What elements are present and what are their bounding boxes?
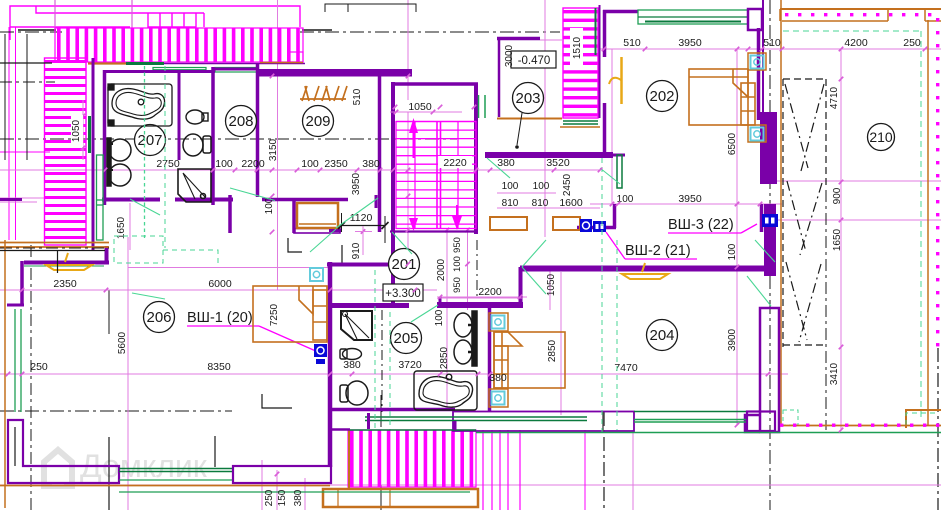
dim line y52 right (598, 48, 941, 50)
wall 203 left (498, 37, 501, 117)
svg-text:100: 100 (215, 158, 233, 170)
svg-text:3950: 3950 (351, 172, 362, 195)
axis vertical x109 mid-left (108, 290, 110, 334)
stair outline (396, 122, 476, 229)
svg-text:100: 100 (452, 256, 463, 272)
svg-text:202: 202 (649, 88, 674, 105)
wall stair right (474, 84, 478, 234)
wall room207 top (104, 70, 215, 73)
wall stair left (391, 82, 395, 308)
hatched wall band top (55, 28, 303, 62)
svg-text:203: 203 (515, 90, 540, 107)
wall 205 bottom (330, 408, 455, 412)
green line y492 (119, 491, 470, 493)
svg-text:100: 100 (533, 181, 550, 192)
svg-text:510: 510 (352, 88, 363, 105)
dim tick 1050 (390, 111, 462, 113)
wall top of rooms 207-209 left (164, 63, 305, 65)
band C right wall (599, 5, 601, 118)
dim line 1120 (342, 225, 386, 227)
stair band C orange sill (560, 126, 600, 128)
cabinet hall 2 (553, 217, 580, 230)
wall 204 right (760, 308, 779, 432)
svg-text:2350: 2350 (324, 158, 348, 170)
dim vertical x128 bottom (127, 237, 129, 510)
dim ticks y52 (602, 47, 607, 52)
axis line top solid tick left (18, 29, 56, 31)
socket 204 top (492, 316, 505, 329)
wall 205-204 divider (488, 305, 492, 412)
svg-text:510: 510 (763, 37, 781, 49)
dim ticks y204 (610, 202, 615, 207)
wall 202 right (757, 28, 761, 120)
socket 202 top (751, 56, 764, 69)
bed 206 (253, 286, 327, 342)
sink small 207 (186, 110, 208, 124)
dim line y485 (0, 484, 941, 486)
hatched stair band left (45, 58, 87, 245)
wall 206 bottom right (233, 466, 331, 483)
green dashed right (920, 31, 922, 420)
dim line y220 right (766, 219, 941, 221)
nightstand 204 top (489, 313, 508, 331)
green dashed verticals left (374, 270, 376, 430)
dim vticks x841 (839, 47, 844, 52)
dim ticks y170 (103, 168, 108, 173)
dim vertical x633 bottom (632, 430, 634, 510)
axis y82 left (0, 81, 55, 83)
svg-text:1050: 1050 (408, 101, 432, 113)
wall 202 right lower (760, 204, 764, 232)
toilet 205 (340, 381, 368, 405)
wall room207/208 (211, 67, 215, 205)
wall 202 top left corner (603, 10, 638, 14)
balcony orange tray (323, 489, 478, 507)
roof outline top-left (10, 6, 300, 40)
wall hall top y265 (327, 263, 395, 267)
axis line y411 (0, 410, 232, 412)
truss dash-dot axis (825, 190, 827, 430)
svg-text:4200: 4200 (844, 37, 868, 49)
shower 205 (341, 311, 372, 340)
dim vert x130 (129, 203, 131, 250)
svg-text:209: 209 (305, 113, 330, 130)
green window left col (97, 155, 104, 240)
wall 203 bottom right ext (613, 154, 625, 157)
dim line y267 left (128, 267, 330, 269)
wall 209 bottom left (262, 198, 348, 202)
svg-text:205: 205 (393, 330, 418, 347)
wall stair top (391, 82, 478, 86)
stair stringer (414, 122, 416, 229)
orange right edge (927, 20, 929, 425)
dim line y204 (590, 203, 782, 205)
svg-text:950: 950 (452, 277, 463, 293)
svg-text:1120: 1120 (350, 212, 373, 224)
svg-text:380: 380 (497, 157, 515, 169)
svg-text:510: 510 (623, 37, 641, 49)
dim vertical x550 (549, 267, 551, 310)
svg-text:380: 380 (293, 489, 304, 506)
nightstand 202 bottom (748, 125, 766, 142)
hatched stair band 203 (563, 8, 598, 118)
underline VSh-3 (668, 232, 741, 234)
wall 208/209 divider (256, 63, 260, 197)
door swing 209 low (336, 198, 378, 228)
orange eave bottom (0, 485, 330, 487)
wall 203 bottom corridor (485, 152, 613, 158)
window 206 bottom (119, 468, 233, 470)
wall 202-210 divider (762, 0, 764, 112)
svg-text:2200: 2200 (241, 158, 265, 170)
svg-text:ВШ-2 (21): ВШ-2 (21) (625, 243, 691, 259)
radiator 202 left (617, 155, 622, 188)
svg-text:380: 380 (362, 158, 380, 170)
magenta dotted y425 (780, 424, 939, 427)
svg-text:2850: 2850 (547, 339, 558, 362)
svg-text:100: 100 (434, 309, 445, 326)
watermark Domklik (44, 450, 72, 486)
black vert x381 (380, 395, 382, 427)
svg-text:250: 250 (30, 361, 48, 373)
black vert x57 (57, 250, 59, 273)
svg-text:ВШ-1 (20): ВШ-1 (20) (187, 310, 253, 326)
black vert x15 (14, 427, 16, 466)
svg-text:208: 208 (228, 113, 253, 130)
axis vertical x215 bottom-left (214, 436, 216, 467)
shower 207 (178, 169, 211, 202)
dim vertical x408 (407, 0, 409, 264)
wardrobe hatch 209 (300, 86, 347, 101)
label room 209 (303, 106, 334, 137)
orange eave left (4, 240, 6, 508)
roof pink verts (8, 27, 10, 240)
dim line y297 (437, 296, 527, 298)
door swing stair (392, 232, 412, 254)
axis line top solid tick right (302, 29, 332, 31)
socket 202 bottom (751, 128, 764, 141)
svg-text:1050: 1050 (546, 273, 557, 296)
svg-text:2450: 2450 (562, 173, 573, 196)
stair treads (396, 121, 476, 123)
svg-text:4710: 4710 (829, 86, 840, 109)
svg-text:6500: 6500 (727, 132, 738, 155)
svg-text:2850: 2850 (439, 346, 450, 369)
window 202 top (638, 10, 748, 24)
svg-text:3720: 3720 (398, 359, 422, 371)
black corner 201 (342, 245, 371, 264)
balcony orange tray inner (337, 489, 339, 507)
wall band bottom right (476, 432, 941, 434)
label room 203 (513, 83, 544, 114)
dim vertical x561 (560, 272, 562, 415)
svg-text:204: 204 (649, 327, 674, 344)
truss column dashed (783, 79, 826, 347)
dim vertical x841 (840, 49, 842, 430)
svg-text:201: 201 (391, 256, 416, 273)
svg-text:100: 100 (727, 243, 738, 260)
axis vertical x31 bottom-left (30, 245, 32, 510)
cabinet hall 1 (490, 217, 527, 230)
black corner mark 2 (262, 394, 292, 408)
wall top 208/209 (213, 68, 257, 71)
label room 210 (868, 124, 895, 151)
wall left outer top (26, 34, 28, 160)
door swing 207 (130, 199, 160, 215)
green dashed path 206 (163, 250, 218, 263)
stair band C green sill (563, 120, 598, 122)
svg-text:ВШ-3 (22): ВШ-3 (22) (668, 217, 734, 233)
svg-text:2220: 2220 (443, 157, 467, 169)
axis line top (0, 31, 62, 33)
label +3.300 (383, 284, 423, 301)
cabinet below 209 (297, 203, 338, 228)
green dashed corner br (906, 413, 936, 425)
wall 203 orange sill (497, 118, 562, 120)
sinks 207 (107, 138, 131, 186)
vent shaft scallop line (144, 66, 146, 238)
green dashed x165 (164, 66, 166, 248)
wall alcove left vert (439, 297, 442, 308)
black vert x109 bottom (108, 437, 110, 510)
sinks 205 (454, 311, 477, 366)
wall below 209 jog (375, 195, 378, 208)
svg-text:3950: 3950 (678, 37, 702, 49)
wall 209 right (378, 76, 382, 232)
window 206 left (14, 309, 16, 412)
svg-text:207: 207 (137, 132, 162, 149)
green sill 206 top (24, 265, 104, 267)
dim vertical x545 (544, 0, 546, 237)
orange sill band B bottom (0, 250, 105, 252)
svg-text:2750: 2750 (156, 158, 180, 170)
orange corner bottom right (906, 410, 941, 428)
door swing 202 bottom (600, 168, 620, 184)
wall alcove top (437, 302, 523, 308)
label room 206 (144, 302, 175, 333)
svg-text:1650: 1650 (832, 228, 843, 251)
wall 204 bottom band (453, 412, 634, 432)
dim line y374 (0, 373, 788, 375)
wall 208 bottom (213, 198, 233, 202)
dim vticks x408 (406, 74, 411, 79)
label room 207 (135, 125, 166, 156)
toilet 207 (183, 134, 211, 156)
dim bracket top center (325, 4, 416, 12)
door swing 205 (411, 305, 438, 322)
green vert x89 (88, 116, 91, 153)
dim vertical x612 (611, 49, 613, 204)
vsh1 icon (314, 344, 327, 357)
orange eave 206 (0, 242, 109, 244)
dim vertical x55 (54, 0, 56, 30)
svg-text:900: 900 (832, 187, 843, 204)
svg-text:150: 150 (277, 489, 288, 506)
label room 205 (391, 323, 422, 354)
svg-text:1510: 1510 (572, 36, 583, 59)
svg-text:3900: 3900 (727, 328, 738, 351)
dim 1050 stairs (403, 100, 437, 112)
green diag 203 (487, 158, 510, 178)
svg-text:3950: 3950 (678, 193, 702, 205)
svg-text:950: 950 (452, 237, 463, 253)
axis vertical x604 bottom (603, 412, 605, 510)
wall room207 divider (178, 70, 181, 160)
svg-text:7470: 7470 (614, 362, 638, 374)
stair down arrow (456, 205, 458, 218)
svg-text:206: 206 (146, 309, 171, 326)
dim ticks y374 (6, 372, 11, 377)
dim 1050 left stair (71, 115, 83, 147)
underline VSh-2 (625, 258, 697, 260)
truss braces (785, 84, 824, 342)
green dashed box 206 (114, 236, 163, 263)
wall corridor x286 (292, 199, 296, 233)
vsh2 icon (580, 219, 592, 232)
axis line y139 (0, 138, 457, 140)
wall 202 bottom jog (613, 204, 617, 228)
stair band left dim line (82, 100, 84, 160)
window 204 bottom (634, 411, 747, 413)
wall under band A orange sill (88, 62, 126, 64)
svg-text:1600: 1600 (559, 197, 583, 209)
wall 206 top (24, 261, 109, 265)
wall 204 bottom right corner (747, 412, 775, 432)
svg-text:100: 100 (502, 181, 519, 192)
dim vertical x446 (446, 228, 448, 410)
bathtub 205 (414, 371, 477, 410)
label -0.470 (511, 51, 556, 68)
axis 206 y248 (0, 247, 109, 249)
leader 203 (517, 113, 522, 145)
wall corridor x230 (228, 195, 232, 233)
vsh3 icon (762, 214, 778, 227)
wall 202 left (603, 10, 607, 57)
dim vertical x272 (277, 0, 279, 290)
dim vertical x585 bottom (584, 430, 586, 510)
svg-text:3410: 3410 (829, 362, 840, 385)
dim line y181 right (766, 180, 941, 182)
window alcove bottom (365, 416, 587, 418)
dim ticks y298 (438, 295, 443, 300)
axis line top right part (300, 31, 560, 33)
axis vertical x770 (769, 0, 771, 510)
svg-text:1050: 1050 (71, 119, 82, 142)
lamp 206 (46, 253, 92, 270)
svg-text:7250: 7250 (269, 303, 280, 326)
orange band top right (780, 8, 941, 10)
label room 204 (647, 320, 678, 351)
dim vertical x132 (131, 0, 133, 62)
svg-text:210: 210 (869, 129, 893, 145)
stair up arrow (413, 132, 415, 158)
green dashed inner 210 (783, 30, 922, 32)
dim line y290 (0, 289, 437, 291)
balcony extra vlines (482, 430, 484, 510)
svg-text:250: 250 (264, 489, 275, 506)
wall 203 top (497, 37, 540, 41)
door swing vsh3 (755, 240, 775, 262)
axis x382 bath (381, 310, 383, 412)
dim line y170 (0, 169, 600, 171)
wall hall-204 top (520, 266, 766, 272)
wall hall left x330 (328, 262, 333, 467)
wall under band A green frames (153, 68, 206, 73)
wall 206 left lower corner (8, 420, 119, 483)
bed 202 (689, 69, 755, 125)
hatch band top inner box (288, 52, 303, 62)
wall 206 left upper (20, 261, 24, 306)
bed 204 (494, 332, 565, 388)
stair window green (478, 95, 480, 118)
dim vticks x737 (735, 47, 740, 52)
dim vertical x455 (467, 228, 469, 310)
svg-text:3000: 3000 (504, 44, 515, 67)
nightstand 204 bottom (489, 389, 508, 407)
wall corridor y229 (294, 229, 340, 234)
threshold stubs (367, 413, 370, 429)
wall 205 top (330, 303, 409, 308)
hatched balcony band bottom (348, 430, 476, 487)
svg-text:380: 380 (343, 359, 361, 371)
wall room207 left (103, 70, 107, 205)
svg-text:910: 910 (351, 242, 362, 259)
door swing 208 (230, 188, 275, 201)
svg-text:6000: 6000 (208, 278, 232, 290)
axis vertical x938 bottom (937, 348, 939, 510)
wall left horiz y63 (0, 62, 52, 64)
wall 202 top right corner (748, 9, 762, 30)
svg-text:2350: 2350 (53, 278, 77, 290)
svg-text:100: 100 (301, 158, 319, 170)
socket 206 (310, 268, 323, 281)
nightstand 202 top (748, 53, 766, 70)
green dashed box 204br (783, 410, 798, 425)
svg-text:810: 810 (502, 198, 519, 209)
wall 206 top jog (105, 246, 109, 264)
dim vertical x737 (736, 49, 738, 425)
balcony top border (349, 429, 476, 431)
magenta dotted top right (785, 13, 931, 16)
wall 204 right upper (764, 204, 776, 276)
door swings hall (132, 240, 546, 299)
dim ticks y107 (393, 105, 398, 110)
svg-text:380: 380 (489, 372, 507, 384)
svg-text:2200: 2200 (478, 286, 502, 298)
svg-text:810: 810 (532, 198, 549, 209)
wall room207 bottom (102, 198, 160, 202)
wall 209 top thick (257, 69, 412, 77)
svg-text:8350: 8350 (207, 361, 231, 373)
bidet 205 (340, 349, 362, 360)
underline VSh-1 (187, 325, 259, 327)
wall under band A green sill 1 (126, 62, 164, 65)
socket 204 bottom (492, 392, 505, 405)
dim 2220 (438, 156, 472, 168)
wall right of left stair (92, 58, 95, 250)
svg-text:250: 250 (903, 37, 921, 49)
label room 202 (647, 81, 678, 112)
label room 208 (226, 106, 257, 137)
label room 201 (389, 249, 420, 280)
svg-text:3150: 3150 (268, 138, 279, 161)
dim vticks x272 (270, 74, 275, 79)
svg-text:3520: 3520 (546, 157, 570, 169)
door swing 204 right (747, 276, 771, 306)
axis x477 dash (476, 240, 478, 300)
magenta dotted right edge (936, 18, 939, 346)
band C 1510 bg (570, 28, 583, 70)
